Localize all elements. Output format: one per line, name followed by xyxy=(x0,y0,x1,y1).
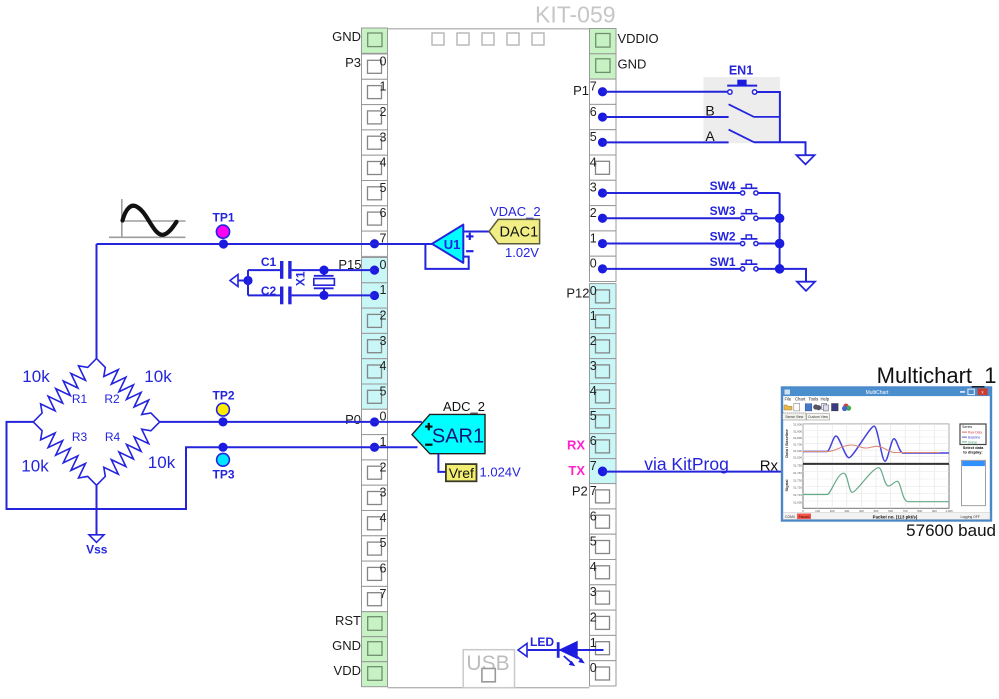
svg-text:0: 0 xyxy=(590,257,597,271)
port P3 pins 0-7 (pin P3_7 has node dot) xyxy=(362,54,388,256)
wire: SW1 to common rail xyxy=(758,268,780,270)
junction: SW2 rail xyxy=(775,239,785,249)
ADC SAR1 xyxy=(412,414,485,453)
port P12 pins 0-7 (cyan, P12_7 node dot) xyxy=(590,284,617,484)
board top edge xyxy=(388,28,590,30)
pin VDDIO xyxy=(590,29,659,54)
svg-text:3: 3 xyxy=(380,130,387,144)
svg-text:RX: RX xyxy=(567,438,585,453)
svg-text:TP3: TP3 xyxy=(212,468,234,482)
wire: SW common rail xyxy=(779,193,781,269)
svg-text:Tools: Tools xyxy=(809,397,819,402)
op-amp U1 xyxy=(432,225,474,263)
svg-text:SW3: SW3 xyxy=(710,204,736,218)
svg-text:Sense View: Sense View xyxy=(785,415,803,419)
port P2 pins 7-0 xyxy=(590,484,617,686)
svg-text:2: 2 xyxy=(380,309,387,323)
svg-text:Signal: Signal xyxy=(968,440,977,444)
junction: TP1 node xyxy=(219,239,228,248)
resistor R3 (10k) xyxy=(21,422,96,485)
junction: X1 bottom node xyxy=(319,291,328,300)
wire: down to bridge top xyxy=(96,244,98,359)
wire: SW4 to common rail xyxy=(758,192,780,194)
junction: TP2 node xyxy=(218,417,227,426)
wire: P0_1 to SAR1 - xyxy=(375,446,418,448)
svg-text:1: 1 xyxy=(590,309,597,323)
svg-text:via KitProg: via KitProg xyxy=(644,454,729,474)
svg-text:4: 4 xyxy=(590,155,597,169)
svg-text:C2: C2 xyxy=(261,284,277,298)
svg-text:Help: Help xyxy=(821,397,830,402)
resistor R4 (10k) xyxy=(97,422,176,485)
junction: TP3 node xyxy=(218,443,227,452)
svg-text:4: 4 xyxy=(380,156,387,170)
svg-text:KIT-059: KIT-059 xyxy=(535,2,616,28)
svg-text:Raw Data: Raw Data xyxy=(968,431,982,435)
switch SW3 xyxy=(710,204,758,220)
svg-text:4: 4 xyxy=(380,359,387,373)
LED light arrows xyxy=(564,653,585,666)
USB connector xyxy=(463,650,514,688)
svg-text:VDD: VDD xyxy=(334,663,361,678)
svg-text:0: 0 xyxy=(590,661,597,675)
port P15 pins 0-5 (cyan, P15_0/P15_1 node dots) xyxy=(362,258,388,410)
capacitor C2 xyxy=(261,284,290,305)
pin RST xyxy=(335,612,388,637)
wire: sine node to P3_7 and U1 input xyxy=(97,243,433,245)
svg-text:R3: R3 xyxy=(72,430,88,444)
svg-text:57600 baud: 57600 baud xyxy=(906,521,996,540)
svg-text:2: 2 xyxy=(590,611,597,625)
svg-text:31,700: 31,700 xyxy=(793,442,802,446)
port P1 pins 7-0 (node dots except P1_4) xyxy=(590,79,617,281)
svg-text:31,730: 31,730 xyxy=(793,478,802,482)
ground (EN1) xyxy=(797,155,815,164)
wire: C2 left lead xyxy=(248,294,280,296)
svg-text:File: File xyxy=(785,397,792,402)
svg-text:3: 3 xyxy=(590,585,597,599)
svg-text:P1: P1 xyxy=(573,83,589,98)
svg-text:RST: RST xyxy=(335,613,361,628)
wire: bridge right node to P0_0 (via TP2) xyxy=(160,421,375,423)
svg-text:31,500: 31,500 xyxy=(793,456,802,460)
svg-text:32,000: 32,000 xyxy=(793,423,802,427)
junction: SW1 rail xyxy=(775,264,785,274)
svg-text:31,600: 31,600 xyxy=(793,500,802,504)
svg-text:5: 5 xyxy=(590,130,597,144)
top programming header pads xyxy=(432,33,544,45)
svg-text:U1: U1 xyxy=(444,237,461,252)
svg-text:3: 3 xyxy=(590,181,597,195)
wire: terminal to junction xyxy=(238,280,248,282)
svg-text:3: 3 xyxy=(380,334,387,348)
svg-text:SAR1: SAR1 xyxy=(432,425,484,447)
svg-text:to display:: to display: xyxy=(963,450,982,455)
svg-text:6: 6 xyxy=(590,105,597,119)
svg-text:R2: R2 xyxy=(104,392,120,406)
wire: SW2 to common rail xyxy=(758,243,780,245)
wire: common vertical xyxy=(247,270,249,295)
wire: pin to SW1 xyxy=(603,268,741,270)
svg-text:Packet no. (113 pkt/s): Packet no. (113 pkt/s) xyxy=(873,514,918,519)
svg-text:10k: 10k xyxy=(144,367,172,386)
svg-text:TP1: TP1 xyxy=(212,211,234,225)
junction: SW3 rail xyxy=(775,213,785,223)
svg-text:Vref: Vref xyxy=(449,465,474,481)
svg-text:0: 0 xyxy=(380,54,387,68)
svg-text:31,600: 31,600 xyxy=(793,449,802,453)
wire: bridge left node to P0_1 (via TP3) xyxy=(7,422,375,509)
pin VDD xyxy=(334,662,388,687)
board bottom edge xyxy=(388,687,590,689)
wire: SAR1 vref lead xyxy=(438,454,446,472)
svg-text:C1: C1 xyxy=(261,255,277,269)
encoder EN1 push button xyxy=(727,80,757,95)
switch SW1 xyxy=(710,255,758,271)
svg-text:VDAC_2: VDAC_2 xyxy=(490,204,541,219)
svg-text:3: 3 xyxy=(590,359,597,373)
switch SW4 xyxy=(710,179,758,195)
svg-text:P0: P0 xyxy=(345,412,361,427)
wire: bridge bottom to Vss xyxy=(96,485,98,535)
svg-text:SW2: SW2 xyxy=(710,229,736,243)
wire: pin to SW4 xyxy=(603,192,741,194)
wire: P1_7 to EN1 button xyxy=(603,91,728,93)
board left header: pin GND (top) xyxy=(362,28,388,53)
encoder EN1 switch B blade xyxy=(729,104,780,117)
svg-text:31,740: 31,740 xyxy=(793,471,802,475)
svg-text:6: 6 xyxy=(590,434,597,448)
svg-text:VDDIO: VDDIO xyxy=(618,31,659,46)
resistor R1 (10k) xyxy=(22,359,96,422)
capacitor C1 xyxy=(261,255,290,279)
svg-text:Series: Series xyxy=(962,425,972,429)
wire: U1 + input to DAC1 xyxy=(463,231,489,233)
svg-text:7: 7 xyxy=(380,587,387,601)
crystal X1 xyxy=(294,270,335,295)
svg-text:31,710: 31,710 xyxy=(793,493,802,497)
svg-text:31,750: 31,750 xyxy=(793,464,802,468)
junction: TX pin node xyxy=(598,467,607,476)
svg-text:X1: X1 xyxy=(294,271,308,286)
sine wave source icon xyxy=(109,199,186,237)
terminal (C1/C2 common) xyxy=(230,275,238,287)
resistor R2 (10k) xyxy=(97,359,173,422)
Multichart window (UART scope) xyxy=(782,388,991,521)
svg-text:2: 2 xyxy=(380,460,387,474)
svg-text:Data / Baseline: Data / Baseline xyxy=(784,429,789,458)
svg-text:GND: GND xyxy=(618,57,647,72)
svg-text:1: 1 xyxy=(590,636,597,650)
svg-text:Chart: Chart xyxy=(795,397,806,402)
svg-text:1.024V: 1.024V xyxy=(480,464,522,479)
svg-text:3: 3 xyxy=(380,486,387,500)
svg-text:Baseline: Baseline xyxy=(968,436,980,440)
svg-text:5: 5 xyxy=(590,535,597,549)
wire: P1_5 to EN1 A contact xyxy=(603,141,729,143)
svg-text:7: 7 xyxy=(590,484,597,498)
svg-text:10k: 10k xyxy=(21,457,49,476)
wire: P1_6 to EN1 B contact xyxy=(603,116,729,118)
switch SW2 xyxy=(710,229,758,245)
svg-text:5: 5 xyxy=(590,409,597,423)
svg-text:1: 1 xyxy=(380,283,387,297)
svg-text:P2: P2 xyxy=(572,484,588,499)
wire: C2 to P15_1 xyxy=(292,294,375,296)
svg-text:31,720: 31,720 xyxy=(793,486,802,490)
svg-text:P12: P12 xyxy=(566,286,589,301)
svg-text:5: 5 xyxy=(380,536,387,550)
test point TP2 xyxy=(212,389,234,416)
reference Vref xyxy=(446,464,477,481)
junction: C1/C2 common xyxy=(243,276,252,285)
svg-text:Logging OFF: Logging OFF xyxy=(961,515,980,519)
port P0 pins 0-7 (P0_0/P0_1 node dots) xyxy=(362,409,388,611)
svg-text:TP2: TP2 xyxy=(212,389,234,403)
port label P3 / label GND xyxy=(332,29,361,70)
LED diode xyxy=(558,642,577,659)
wire: SW rail to ground xyxy=(780,269,806,282)
wire: EN1 button to common rail xyxy=(757,92,780,142)
svg-text:Rx: Rx xyxy=(760,457,779,474)
svg-text:1: 1 xyxy=(380,80,387,94)
svg-text:2: 2 xyxy=(590,334,597,348)
svg-text:1: 1 xyxy=(590,231,597,245)
wire: P0_0 to SAR1 + xyxy=(375,421,422,423)
svg-text:6: 6 xyxy=(380,206,387,220)
svg-text:Vss: Vss xyxy=(86,543,108,557)
svg-text:R4: R4 xyxy=(105,430,121,444)
wire: pin to SW2 xyxy=(603,243,741,245)
svg-text:EN1: EN1 xyxy=(729,64,753,78)
pin GND (right top) xyxy=(590,54,647,79)
svg-text:5: 5 xyxy=(380,181,387,195)
junction: X1 top node xyxy=(319,266,328,275)
pin GND (left bottom) xyxy=(332,637,387,662)
terminal (LED) xyxy=(518,644,527,657)
svg-text:SW1: SW1 xyxy=(710,255,736,269)
svg-text:6: 6 xyxy=(590,509,597,523)
svg-text:GND: GND xyxy=(332,29,361,44)
encoder EN1 background xyxy=(704,77,781,143)
svg-text:2: 2 xyxy=(590,206,597,220)
ground Vss xyxy=(86,535,108,557)
wire: SW3 to common rail xyxy=(758,217,780,219)
svg-text:0: 0 xyxy=(380,258,387,272)
svg-text:DAC1: DAC1 xyxy=(499,225,538,241)
svg-text:31,800: 31,800 xyxy=(793,436,802,440)
wire: TX to Multichart (via KitProg) xyxy=(603,471,783,473)
svg-text:4: 4 xyxy=(590,384,597,398)
svg-text:Paused: Paused xyxy=(799,515,810,519)
svg-text:MultiChart: MultiChart xyxy=(866,390,889,396)
wire: C1 left lead xyxy=(248,269,280,271)
wire: U1 feedback loop xyxy=(425,245,468,269)
wire: C1 to P15_0 xyxy=(292,269,375,271)
test point TP1 xyxy=(212,211,234,239)
svg-text:1.02V: 1.02V xyxy=(505,245,539,260)
wire: pin to SW3 xyxy=(603,217,741,219)
svg-text:ADC_2: ADC_2 xyxy=(443,399,485,414)
svg-text:5: 5 xyxy=(380,384,387,398)
svg-text:7: 7 xyxy=(590,80,597,94)
svg-text:SW4: SW4 xyxy=(710,179,736,193)
svg-text:R1: R1 xyxy=(72,392,88,406)
svg-text:Custom View: Custom View xyxy=(808,415,828,419)
svg-text:Signal: Signal xyxy=(784,479,789,491)
encoder EN1 switch A blade xyxy=(729,130,754,143)
wire: EN1 A to ground xyxy=(754,142,806,155)
DAC DAC1 xyxy=(489,219,540,243)
svg-text:LED: LED xyxy=(530,635,554,649)
test point TP3 xyxy=(212,453,234,481)
wire: LED anode to P2_1 xyxy=(528,649,604,651)
svg-text:GND: GND xyxy=(332,638,361,653)
svg-text:31,900: 31,900 xyxy=(793,429,802,433)
svg-text:4: 4 xyxy=(590,560,597,574)
svg-text:6: 6 xyxy=(380,562,387,576)
svg-text:TX: TX xyxy=(568,463,585,478)
svg-text:2: 2 xyxy=(380,105,387,119)
svg-text:10k: 10k xyxy=(22,367,50,386)
svg-text:10k: 10k xyxy=(148,453,176,472)
svg-text:7: 7 xyxy=(590,459,597,473)
svg-text:0: 0 xyxy=(590,284,597,298)
svg-text:COM4: COM4 xyxy=(785,515,795,519)
ground (SW) xyxy=(797,282,815,291)
svg-text:4: 4 xyxy=(380,511,387,525)
svg-text:Multichart_1: Multichart_1 xyxy=(877,363,997,388)
svg-text:P3: P3 xyxy=(345,55,361,70)
